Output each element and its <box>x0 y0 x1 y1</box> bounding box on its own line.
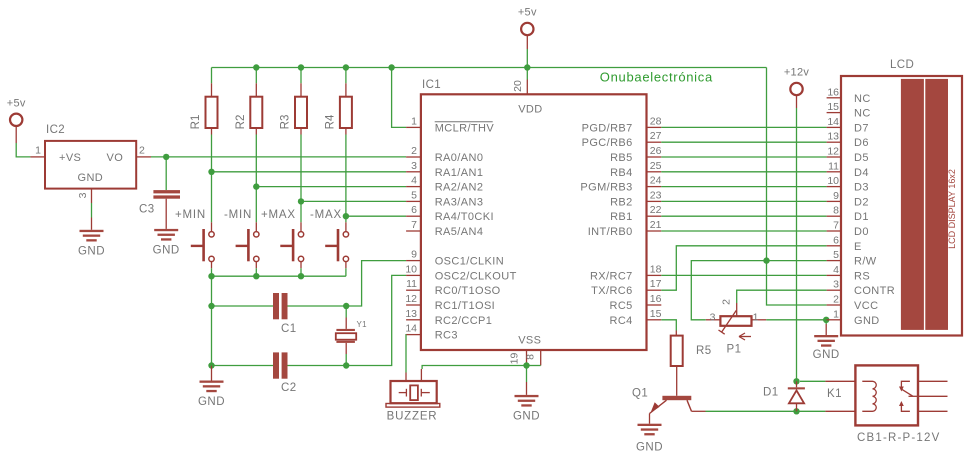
svg-text:Y1: Y1 <box>357 320 368 329</box>
wire C1 row left <box>212 305 274 307</box>
relay K1 <box>825 365 947 444</box>
wire VO junction down to C3 <box>165 157 167 190</box>
IC1 pin 18 RX/RC7 <box>590 263 662 282</box>
IC1 pin 26 RB5 <box>610 145 662 164</box>
svg-text:3: 3 <box>77 192 89 198</box>
wire R4 bottom column <box>345 135 347 223</box>
svg-text:NC: NC <box>854 108 871 120</box>
ground IC2 <box>78 230 105 257</box>
svg-text:2: 2 <box>139 145 145 157</box>
svg-text:RS: RS <box>854 270 870 282</box>
svg-text:10: 10 <box>405 263 417 275</box>
svg-text:CONTR: CONTR <box>854 285 895 297</box>
svg-text:5: 5 <box>833 249 839 261</box>
svg-text:RB2: RB2 <box>610 196 633 208</box>
wire +12v down to relay/diode <box>796 95 798 381</box>
IC1 pin 23 RB2 <box>610 189 662 208</box>
wire buzzer to VSS ground node <box>422 366 526 370</box>
wire P1 wiper to LCD CONTR <box>737 290 827 303</box>
svg-text:R5: R5 <box>696 345 712 357</box>
svg-text:RC2/CCP1: RC2/CCP1 <box>435 315 493 327</box>
wire RX/RC7 (pin 18) to LCD RS <box>661 274 826 276</box>
ground LCD <box>813 335 840 361</box>
LCD pin 16 NC <box>827 86 871 105</box>
IC1 pin 10 OSC2/CLKOUT <box>405 263 516 282</box>
wire RA1/AN1 row to IC1 pin 3 <box>212 171 407 173</box>
wire +5v rail branch down to R/W and VCC <box>767 68 827 306</box>
svg-text:6: 6 <box>833 234 839 246</box>
wire RA2/AN2 row to IC1 pin 4 <box>256 186 406 188</box>
svg-text:2: 2 <box>833 294 839 306</box>
resistor R5 <box>671 331 712 396</box>
svg-text:1: 1 <box>411 115 417 127</box>
svg-text:D1: D1 <box>763 387 779 399</box>
svg-text:K1: K1 <box>827 388 842 400</box>
power +5v left <box>7 97 26 126</box>
svg-text:-MIN: -MIN <box>224 209 252 221</box>
svg-text:GND: GND <box>153 244 180 256</box>
junction R2 top <box>253 64 259 70</box>
svg-text:20: 20 <box>512 80 524 92</box>
LCD pin 1 GND <box>827 308 880 327</box>
svg-text:11: 11 <box>406 278 417 290</box>
wire +MAX button to bus <box>300 268 302 276</box>
IC1 pin 7 RA5/AN4 <box>406 219 483 238</box>
wire +5v to IC2 pin 1 <box>16 126 30 157</box>
svg-text:C3: C3 <box>139 204 155 216</box>
IC1 pin 19 VSS <box>509 350 527 364</box>
IC1 pin 24 PGM/RB3 <box>580 175 661 194</box>
svg-text:PGM/RB3: PGM/RB3 <box>580 182 632 194</box>
svg-text:GND: GND <box>513 410 540 422</box>
IC1 pin 20 VDD <box>512 80 527 95</box>
LCD pin 6 E <box>827 234 862 253</box>
svg-text:4: 4 <box>411 175 417 187</box>
svg-text:14: 14 <box>405 323 417 335</box>
LCD pin 14 D7 <box>827 116 869 134</box>
svg-text:IC2: IC2 <box>46 124 65 136</box>
wire D1 cathode to K1 coil top <box>800 380 825 382</box>
svg-text:R4: R4 <box>324 114 336 129</box>
svg-text:5: 5 <box>411 189 417 201</box>
junction bus S3 <box>298 273 304 279</box>
svg-text:9: 9 <box>411 249 417 261</box>
wire RB5 to LCD D5 <box>661 156 826 158</box>
transistor Q1 <box>632 388 706 424</box>
LCD pin 11 D4 <box>827 160 869 179</box>
IC1 pin 25 RB4 <box>610 160 662 179</box>
capacitor C3 <box>139 190 180 215</box>
LCD pin 9 D2 <box>827 190 869 209</box>
IC1 pin 1 MCLR/THV <box>406 115 494 134</box>
svg-text:9: 9 <box>833 190 839 202</box>
svg-text:GND: GND <box>198 396 225 408</box>
wire top +5v rail <box>212 67 767 69</box>
svg-text:OSC2/CLKOUT: OSC2/CLKOUT <box>435 270 517 282</box>
capacitor C1 <box>273 293 297 335</box>
svg-text:2: 2 <box>721 299 733 305</box>
svg-text:24: 24 <box>650 175 662 187</box>
svg-text:8: 8 <box>525 354 537 360</box>
wire IC1 pin 15 RC4 to R5 <box>661 320 676 331</box>
buzzer BUZZER <box>386 369 440 423</box>
wire +5v supply to rail <box>526 35 528 67</box>
ground buttons/C1/C2 <box>198 381 225 409</box>
wire RB3 to LCD D3 <box>661 186 826 188</box>
IC1 pin 16 RC5 <box>609 293 661 312</box>
svg-text:GND: GND <box>813 349 840 361</box>
svg-text:1: 1 <box>833 308 839 320</box>
voltage regulator IC2 <box>30 124 151 203</box>
svg-text:1: 1 <box>753 312 759 324</box>
svg-text:2: 2 <box>411 145 417 157</box>
wire P1 pin 1 to LCD GND node <box>766 319 826 321</box>
IC1 pin 27 PGC/RB6 <box>582 130 662 149</box>
wire RB7 to LCD D7 <box>661 126 826 128</box>
svg-text:R/W: R/W <box>854 256 877 268</box>
IC1 pin 28 PGD/RB7 <box>582 115 662 134</box>
junction Y1 top / OSC1 <box>343 303 349 309</box>
junction R4/RA4 row <box>343 213 349 219</box>
wire R2 bottom column <box>255 135 257 223</box>
IC1 pin 5 RA3/AN3 <box>406 189 483 208</box>
junction rail to +5v supply <box>524 64 530 70</box>
svg-text:15: 15 <box>650 308 662 320</box>
svg-text:R2: R2 <box>235 115 247 130</box>
pushbutton -MAX <box>310 209 349 268</box>
svg-text:27: 27 <box>650 130 662 142</box>
LCD pin 3 CONTR <box>827 279 896 298</box>
IC1 pin 14 RC3 <box>405 323 458 342</box>
resistor R4 <box>324 68 352 135</box>
IC1 pin 13 RC2/CCP1 <box>405 308 492 327</box>
junction R3/RA3 row <box>298 198 304 204</box>
IC1 pin 15 RC4 <box>609 308 661 327</box>
svg-text:INT/RB0: INT/RB0 <box>588 226 633 238</box>
wire left ground column <box>211 276 213 365</box>
svg-text:PGD/RB7: PGD/RB7 <box>582 122 633 134</box>
IC1 pin 2 RA0/AN0 <box>406 145 483 164</box>
svg-text:6: 6 <box>411 204 417 216</box>
svg-text:C1: C1 <box>281 323 297 335</box>
junction R4 top <box>343 64 349 70</box>
junction R2/RA2 row <box>253 183 259 189</box>
LCD display module <box>841 59 962 336</box>
IC1 pin 12 RC1/T1OSI <box>405 293 495 312</box>
LCD pin 12 D5 <box>827 146 869 165</box>
svg-text:RA1/AN1: RA1/AN1 <box>435 167 484 179</box>
svg-text:12: 12 <box>405 293 417 305</box>
wire C2 row right <box>288 365 347 367</box>
resistor R1 <box>190 68 218 135</box>
svg-text:+5v: +5v <box>7 97 26 109</box>
svg-text:25: 25 <box>650 160 662 172</box>
wire R1 bottom column <box>211 135 213 223</box>
svg-text:21: 21 <box>650 219 662 231</box>
svg-text:RB1: RB1 <box>610 211 633 223</box>
svg-text:RC1/T1OSI: RC1/T1OSI <box>435 300 495 312</box>
svg-text:D5: D5 <box>854 152 869 164</box>
ground VSS <box>513 395 540 423</box>
svg-text:RA3/AN3: RA3/AN3 <box>435 196 484 208</box>
junction D1 cathode / +12v <box>793 378 799 384</box>
svg-text:RC3: RC3 <box>435 330 458 342</box>
IC1 pin 3 RA1/AN1 <box>406 160 483 179</box>
wire IC2 pin 3 to ground <box>91 203 93 218</box>
svg-text:RA2/AN2: RA2/AN2 <box>435 182 484 194</box>
svg-text:22: 22 <box>650 204 662 216</box>
svg-text:10: 10 <box>827 175 839 187</box>
microcontroller IC1 (PIC) <box>421 79 647 350</box>
svg-text:3: 3 <box>710 312 716 324</box>
svg-text:3: 3 <box>833 279 839 291</box>
svg-text:16: 16 <box>650 293 662 305</box>
svg-text:E: E <box>854 241 862 253</box>
svg-text:GND: GND <box>854 315 880 327</box>
power +5v top <box>518 7 537 36</box>
svg-text:R3: R3 <box>280 115 292 130</box>
LCD pin 13 D6 <box>827 131 869 150</box>
svg-text:4: 4 <box>833 264 839 276</box>
capacitor C2 <box>273 352 297 394</box>
svg-text:IC1: IC1 <box>422 79 441 91</box>
junction LCD GND <box>823 317 829 323</box>
wire RB4 to LCD D4 <box>661 171 826 173</box>
svg-text:D3: D3 <box>854 182 869 194</box>
junction C1 left <box>208 303 214 309</box>
svg-text:19: 19 <box>509 353 521 365</box>
LCD pin 10 D3 <box>827 175 869 194</box>
svg-text:RX/RC7: RX/RC7 <box>590 270 633 282</box>
svg-text:CB1-R-P-12V: CB1-R-P-12V <box>857 432 941 444</box>
wire RB2 to LCD D2 <box>661 200 826 202</box>
LCD pin 4 RS <box>827 264 870 283</box>
pushbutton +MIN <box>175 209 214 268</box>
svg-text:OSC1/CLKIN: OSC1/CLKIN <box>435 256 504 268</box>
svg-text:RA0/AN0: RA0/AN0 <box>435 152 484 164</box>
LCD pin 8 D1 <box>827 205 869 224</box>
wire OSC1 (IC1 pin 9) to Y1/C1 <box>346 261 406 306</box>
svg-text:+MAX: +MAX <box>261 209 296 221</box>
IC1 pin 22 RB1 <box>610 204 662 223</box>
IC1 pin 9 OSC1/CLKIN <box>406 249 504 268</box>
wire LCD GND to ground symbol <box>825 320 827 335</box>
wire IC2 VO output to IC1 pin 2 (RA0/AN0) <box>151 156 406 158</box>
svg-text:PGC/RB6: PGC/RB6 <box>582 137 633 149</box>
resistor R2 <box>235 68 262 135</box>
wire +MIN button to bus <box>211 268 213 276</box>
svg-text:GND: GND <box>78 245 105 257</box>
svg-text:NC: NC <box>854 93 871 105</box>
svg-text:D1: D1 <box>854 211 869 223</box>
svg-text:D6: D6 <box>854 137 869 149</box>
svg-text:GND: GND <box>636 442 663 454</box>
junction node VO/C3 <box>163 154 169 160</box>
wire C2 row left <box>212 365 274 367</box>
svg-text:LCD: LCD <box>890 59 914 71</box>
svg-text:RA4/T0CKI: RA4/T0CKI <box>435 211 494 223</box>
IC1 pin 11 RC0/T1OSO <box>406 278 501 297</box>
svg-text:VO: VO <box>107 152 124 164</box>
svg-text:+MIN: +MIN <box>175 209 206 221</box>
svg-text:15: 15 <box>827 101 839 113</box>
wire Q1 collector to D1/K1 <box>706 410 826 412</box>
svg-text:VSS: VSS <box>518 335 541 347</box>
power +12v <box>784 67 810 96</box>
svg-text:28: 28 <box>650 115 662 127</box>
potentiometer P1 <box>706 299 767 356</box>
svg-text:VDD: VDD <box>518 103 542 115</box>
svg-text:Onubaelectrónica: Onubaelectrónica <box>600 70 713 85</box>
svg-text:MCLR/THV: MCLR/THV <box>435 122 495 134</box>
svg-text:D4: D4 <box>854 167 869 179</box>
svg-text:D7: D7 <box>854 122 869 134</box>
svg-text:+VS: +VS <box>59 152 81 164</box>
wire IC1 pin 14 RC3 to buzzer <box>405 335 407 373</box>
svg-text:RC0/T1OSO: RC0/T1OSO <box>435 285 501 297</box>
svg-text:RC5: RC5 <box>609 300 632 312</box>
svg-text:13: 13 <box>405 308 417 320</box>
wire VSS pins to ground <box>527 363 541 395</box>
svg-text:TX/RC6: TX/RC6 <box>591 285 633 297</box>
wire column to ground <box>211 366 213 381</box>
junction D1 anode <box>793 408 799 414</box>
svg-text:Q1: Q1 <box>632 388 648 400</box>
junction rail to MCLR branch <box>388 64 394 70</box>
svg-text:17: 17 <box>650 278 662 290</box>
svg-text:-MAX: -MAX <box>310 209 342 221</box>
svg-text:8: 8 <box>833 205 839 217</box>
svg-text:D0: D0 <box>854 226 869 238</box>
wire C3 to ground <box>165 199 167 229</box>
svg-text:26: 26 <box>650 145 662 157</box>
wire OSC2 (IC1 pin 10) to Y1/C2 <box>346 275 406 365</box>
wire R3 bottom column <box>300 135 302 223</box>
svg-text:+12v: +12v <box>784 67 810 79</box>
svg-text:R1: R1 <box>190 115 202 130</box>
wire rail junction to VDD pin 20 <box>526 68 528 80</box>
wire RB0 to LCD D0 <box>661 230 826 232</box>
wire RB6 to LCD D6 <box>661 141 826 143</box>
LCD pin 5 R/W <box>827 249 877 268</box>
svg-text:D2: D2 <box>854 196 869 208</box>
IC1 pin 17 TX/RC6 <box>591 278 661 297</box>
svg-text:16: 16 <box>827 86 839 98</box>
svg-text:1: 1 <box>35 145 41 157</box>
wire -MIN button to bus <box>255 268 257 276</box>
junction R1/RA1 row <box>208 169 214 175</box>
svg-text:RB4: RB4 <box>610 167 633 179</box>
junction bus S1 <box>208 273 214 279</box>
svg-text:13: 13 <box>827 131 839 143</box>
svg-text:7: 7 <box>411 219 417 231</box>
LCD pin 2 VCC <box>827 294 879 313</box>
svg-text:LCD DISPLAY 16x2: LCD DISPLAY 16x2 <box>947 169 957 249</box>
svg-text:P1: P1 <box>727 344 742 356</box>
LCD pin 15 NC <box>827 101 871 120</box>
wire TX/RC6 (pin 17) to LCD E <box>661 246 826 290</box>
IC1 pin 21 INT/RB0 <box>588 219 662 238</box>
wire R/W net (+5v) to LCD and P1 pin 3 <box>691 261 826 320</box>
wire RB1 to LCD D1 <box>661 215 826 217</box>
svg-text:+5v: +5v <box>518 7 537 19</box>
wire -MAX button to bus <box>345 268 347 276</box>
IC1 pin 6 RA4/T0CKI <box>406 204 494 223</box>
svg-text:7: 7 <box>833 220 839 232</box>
svg-text:VCC: VCC <box>854 300 878 312</box>
ground Q1 <box>636 424 663 454</box>
svg-text:3: 3 <box>411 160 417 172</box>
junction VSS/buzzer ground <box>523 362 529 368</box>
IC1 pin 4 RA2/AN2 <box>406 175 483 194</box>
wire RA4/T0CKI row to IC1 pin 6 <box>346 215 406 217</box>
wire C1 row right <box>288 305 347 307</box>
junction Y1 bottom / OSC2 <box>343 362 349 368</box>
svg-text:14: 14 <box>827 116 839 128</box>
wire button ground bus <box>212 275 346 277</box>
svg-text:BUZZER: BUZZER <box>387 411 438 423</box>
pushbutton +MAX <box>261 209 304 268</box>
svg-text:18: 18 <box>650 263 662 275</box>
svg-text:11: 11 <box>828 160 839 172</box>
wire rail to IC1 pin 1 (MCLR) <box>392 68 407 128</box>
junction R3 top <box>298 64 304 70</box>
svg-text:12: 12 <box>827 146 839 158</box>
junction +5v / R-W row <box>763 257 769 263</box>
IC1 pin 8 VSS <box>525 350 541 366</box>
resistor R3 <box>280 68 308 135</box>
svg-text:GND: GND <box>78 172 104 184</box>
wire RA3/AN3 row to IC1 pin 5 <box>301 200 406 202</box>
junction C2 left <box>208 362 214 368</box>
svg-text:RB5: RB5 <box>610 152 633 164</box>
diode D1 <box>763 381 805 411</box>
svg-text:RC4: RC4 <box>609 315 632 327</box>
LCD pin 7 D0 <box>827 220 869 239</box>
ground C3 <box>153 229 180 257</box>
svg-text:RA5/AN4: RA5/AN4 <box>435 226 484 238</box>
crystal Y1 <box>336 306 367 366</box>
pushbutton -MIN <box>224 209 259 268</box>
junction bus S2 <box>253 273 259 279</box>
svg-text:C2: C2 <box>281 382 297 394</box>
svg-text:23: 23 <box>650 189 662 201</box>
